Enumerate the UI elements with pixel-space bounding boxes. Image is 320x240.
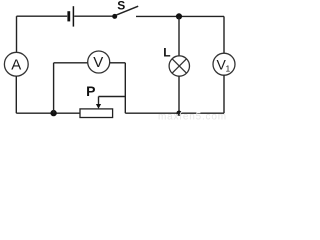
wire lamp to bottom junction: [178, 76, 180, 113]
svg-text:L: L: [163, 46, 170, 60]
wire top-left horizontal: [17, 15, 68, 17]
svg-text:1: 1: [226, 63, 231, 73]
wire bottom left span: [16, 112, 80, 114]
node junction bottom-left (voltmeter branch): [50, 110, 56, 116]
battery cell: [69, 6, 74, 26]
rheostat P: [80, 83, 113, 117]
wire battery to switch: [74, 15, 112, 17]
wire ammeter top vertical: [16, 16, 18, 52]
wire voltmeter-loop right vertical: [124, 63, 126, 113]
wire ammeter bottom vertical: [15, 76, 17, 113]
node junction top (lamp branch): [176, 13, 182, 19]
svg-text:S: S: [117, 0, 125, 12]
wire voltmeter-loop left horizontal: [54, 62, 88, 64]
voltmeter U V1: [213, 53, 235, 75]
voltmeter V: [88, 51, 110, 73]
wire bottom right span: [125, 112, 224, 114]
wire slider horizontal: [99, 96, 126, 98]
lamp L: [163, 46, 189, 77]
ammeter A: [4, 52, 28, 76]
wire voltmeter V1 down to bottom-right corner: [223, 75, 225, 113]
wire junction down to lamp: [178, 16, 180, 56]
node junction bottom (lamp branch): [176, 111, 181, 116]
switch S: [112, 0, 138, 19]
svg-text:V: V: [93, 54, 103, 71]
wire top-right corner down to voltmeter V1: [223, 16, 225, 53]
svg-text:A: A: [11, 56, 21, 73]
svg-text:maxfen5.com: maxfen5.com: [158, 112, 227, 121]
wire switch to top-right corner: [136, 15, 224, 17]
svg-text:P: P: [86, 83, 95, 99]
wire voltmeter-loop left vertical: [53, 63, 55, 113]
wire voltmeter-loop right horizontal: [110, 62, 126, 64]
